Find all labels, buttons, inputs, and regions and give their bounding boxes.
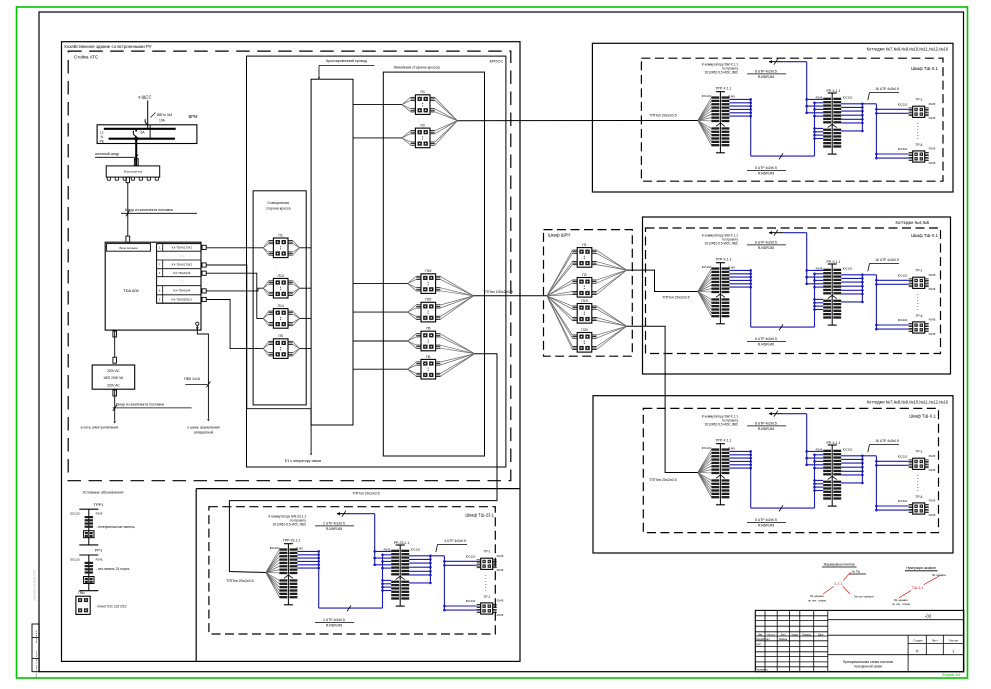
svg-text:8 UTP 4х2х0.5: 8 UTP 4х2х0.5 (755, 337, 777, 341)
svg-text:- пат-панель 24 порта,: - пат-панель 24 порта, (96, 567, 130, 571)
svg-text:№док: №док (792, 633, 799, 636)
svg-text:RJ45: RJ45 (929, 513, 936, 517)
svg-text:RJ45: RJ45 (929, 318, 936, 322)
wire: штатный шнур (thick cord from ВРМ) (135, 137, 137, 166)
svg-text:ВРМ: ВРМ (189, 114, 199, 119)
svg-text:RJ45: RJ45 (497, 599, 504, 603)
UPS wire from PBX (114, 330, 116, 358)
svg-text:RJ45: RJ45 (929, 147, 936, 151)
svg-text:8 UTP 4х2х0.5: 8 UTP 4х2х0.5 (755, 70, 777, 74)
svg-text:П19: П19 (425, 269, 431, 273)
svg-text:8 UTP 4х2х0.5: 8 UTP 4х2х0.5 (755, 166, 777, 170)
svg-text:- плинт IDC 110 2/10: - плинт IDC 110 2/10 (96, 604, 127, 608)
svg-text:ПВЗ 1х16: ПВЗ 1х16 (184, 377, 200, 381)
svg-text:Маркировка плинтов: Маркировка плинтов (824, 562, 855, 566)
svg-text:RJ45: RJ45 (929, 161, 936, 165)
cross-connect jumper bundle (tall box) (311, 79, 353, 425)
svg-text:Е1 к оператору связи: Е1 к оператору связи (285, 459, 321, 463)
svg-text:16 UTP 4х2х0.5: 16 UTP 4х2х0.5 (875, 87, 899, 91)
svg-text:IDC110: IDC110 (70, 512, 80, 516)
svg-text:: : :: : : : (180, 254, 185, 258)
svg-text:Станционная: Станционная (267, 201, 289, 205)
svg-text:2012452-5.5-ИОС.ЛВС: 2012452-5.5-ИОС.ЛВС (705, 423, 739, 427)
splice node: П5/П6 to ТШ-23.1 trunk (440, 334, 474, 354)
svg-text:штатный шнур: штатный шнур (95, 152, 119, 156)
wire jumper bundle to П6 (353, 368, 408, 370)
svg-text:IDC110: IDC110 (843, 267, 853, 271)
svg-text:RJ45: RJ45 (929, 273, 936, 277)
wire П13 to jumper bundle (300, 287, 312, 289)
svg-text:RJ45: RJ45 (816, 267, 823, 271)
svg-text:ТШ-4-1: ТШ-4-1 (912, 586, 923, 590)
title block (основная надпись) (755, 610, 964, 671)
svg-text:№ пат-панели: № пат-панели (854, 595, 874, 599)
PBX chassis ground symbol (196, 322, 199, 325)
power supply module: Блок питания (107, 244, 151, 252)
earthing conductor ПВЗ 1х16 (197, 330, 208, 419)
station side box: Станционная сторона кросса (253, 191, 306, 405)
svg-text:ТРР-Х.1.1: ТРР-Х.1.1 (715, 438, 731, 442)
svg-text:П2: П2 (421, 124, 425, 128)
trunk wire ТППэп 100х2х0.5 to ШРН (474, 295, 547, 297)
svg-text:-02: -02 (925, 613, 932, 618)
cabinet interior box C (ТШ-Х.1 bottom) (698, 411, 929, 514)
svg-text:RJ45: RJ45 (929, 287, 936, 291)
cottage cabinet Шкаф ТШ-23.1 (dashed box) (209, 507, 495, 634)
svg-text:RJ45: RJ45 (929, 468, 936, 472)
svg-text:: : :: : : : (180, 280, 185, 284)
svg-text:RJ45: RJ45 (929, 102, 936, 106)
neutral tap wire (149, 125, 151, 139)
wire ШРН to box B (627, 270, 698, 291)
fan wires of line-side П5 (408, 334, 417, 341)
wire: card 6 to П13 (206, 288, 263, 291)
svg-text:П20: П20 (425, 298, 431, 302)
svg-text:IDC110: IDC110 (270, 546, 280, 550)
svg-text:Шкаф ТШ-Х.1: Шкаф ТШ-Х.1 (911, 66, 938, 71)
svg-text:РР-Х.1.1: РР-Х.1.1 (826, 260, 840, 264)
svg-text:КРОСС: КРОСС (489, 58, 503, 63)
wire jumper bundle to П5 (353, 340, 408, 342)
svg-text:ТРР-23.1.1: ТРР-23.1.1 (283, 538, 301, 542)
svg-text:Коттеджи №7,№8,№9,№10,№11,№12,: Коттеджи №7,№8,№9,№10,№11,№12,№16 (867, 400, 949, 405)
svg-text:РР-23.1.1: РР-23.1.1 (394, 541, 410, 545)
svg-text:IDC110: IDC110 (898, 274, 908, 278)
bus bar L1 (104, 128, 176, 130)
svg-text:ТР-6: ТР-6 (916, 314, 923, 318)
svg-text:Стойка АТС: Стойка АТС (74, 55, 98, 60)
svg-text:RJ45/RJ45: RJ45/RJ45 (758, 75, 774, 79)
fan wires of П1 (263, 241, 268, 248)
svg-text:ВВГнг 3х4: ВВГнг 3х4 (157, 113, 172, 117)
svg-text:Хозяйственное здание со встрое: Хозяйственное здание со встроенными РУ (64, 44, 152, 49)
PBX main unit KX-TDA600 (105, 242, 201, 330)
svg-text:RJ45/RJ45: RJ45/RJ45 (758, 524, 774, 528)
svg-text:П1: П1 (582, 243, 586, 247)
breaker 6А (135, 129, 137, 132)
svg-text:ТР-1: ТР-1 (916, 268, 923, 272)
svg-text:RJ45: RJ45 (96, 512, 103, 516)
svg-text:Разработал: Разработал (756, 638, 770, 641)
svg-text:сторона кросса: сторона кросса (266, 206, 291, 210)
svg-text:- телефонная пат-панель,: - телефонная пат-панель, (96, 525, 136, 529)
svg-text:ТР-1: ТР-1 (916, 97, 923, 101)
svg-text:Условные обозначения: Условные обозначения (82, 491, 123, 495)
svg-text:RJ45: RJ45 (497, 613, 504, 617)
cabinet Шкаф ТШ-Х.1 (box A, dashed) (641, 58, 943, 181)
svg-text:Инв.№ подл.: Инв.№ подл. (35, 664, 38, 677)
svg-text:№ шкафа: № шкафа (932, 573, 946, 577)
svg-text:2012452-5.5-ИОС.ЛВС: 2012452-5.5-ИОС.ЛВС (705, 242, 739, 246)
svg-text:П: П (916, 648, 919, 653)
fan wires of line-side П1 (402, 97, 411, 104)
socket outlets comb (106, 177, 108, 180)
cabinet interior box A (ТШ-Х.1 top) (698, 59, 929, 162)
svg-text:в сеть электропитания: в сеть электропитания (81, 426, 119, 430)
svg-text:IDC110: IDC110 (898, 318, 908, 322)
cottage building B outline (Коттеджи №4,№5) (643, 217, 951, 374)
svg-text:RJ45: RJ45 (497, 554, 504, 558)
svg-text:2012452-5.5-ИОС.ЛВС: 2012452-5.5-ИОС.ЛВС (273, 523, 307, 527)
bus bar N (109, 138, 175, 140)
svg-text:KX-TDA0144: KX-TDA0144 (173, 289, 190, 293)
svg-text:RJ45/RJ45: RJ45/RJ45 (758, 427, 774, 431)
svg-text:Подп. и дата: Подп. и дата (36, 650, 38, 664)
cabinet Шкаф ШРН (dashed) (544, 230, 633, 357)
svg-text:KX-TDA0144: KX-TDA0144 (173, 271, 190, 275)
svg-text:RJ45: RJ45 (728, 94, 735, 98)
wire: card to П14 (206, 273, 263, 318)
svg-text:Шкаф ТШ-Х.1: Шкаф ТШ-Х.1 (909, 414, 936, 419)
socket block: Блок розеток (106, 166, 160, 177)
svg-text:ТРР-Х.1.1: ТРР-Х.1.1 (715, 86, 731, 90)
svg-text:П19: П19 (581, 299, 587, 303)
svg-text:Кол.уч: Кол.уч (768, 634, 776, 636)
svg-text:П20: П20 (581, 328, 587, 332)
wire: card to П5 (206, 300, 263, 349)
building: Хозяйственное здание со встроенными РУ (solid outline) (62, 42, 521, 662)
svg-text:. . .: . . . (275, 268, 279, 273)
wire П14 to jumper bundle (300, 317, 312, 319)
svg-text:RJ45: RJ45 (728, 446, 735, 450)
PBX card shelf (157, 244, 201, 304)
wire jumper bundle to П1 (353, 104, 402, 106)
svg-text:RJ45: RJ45 (929, 454, 936, 458)
svg-text:RJ45: RJ45 (728, 265, 735, 269)
svg-text:KX-TDA0170XJ: KX-TDA0170XJ (172, 263, 193, 267)
svg-text:П13: П13 (278, 274, 284, 278)
svg-text:Коттеджи №7,№8,№9,№10,№11,№12,: Коттеджи №7,№8,№9,№10,№11,№12,№16 (867, 47, 949, 52)
svg-text:IDC110: IDC110 (466, 555, 476, 559)
svg-text:16 UTP 4х2х0.5: 16 UTP 4х2х0.5 (875, 258, 899, 262)
svg-text:4-Т-1: 4-Т-1 (834, 582, 842, 586)
UPS unit ИБП 2000 VA (92, 365, 135, 389)
svg-text:220V AC: 220V AC (107, 369, 120, 373)
svg-text:П6: П6 (426, 355, 430, 359)
ШРН fan of П2 (547, 280, 573, 296)
svg-text:Дата: Дата (818, 634, 824, 636)
svg-text:Шкаф ТШ-Х.1: Шкаф ТШ-Х.1 (911, 233, 938, 238)
fan wires of line-side П20 (408, 305, 417, 312)
PBX power inlet connector (126, 236, 130, 242)
svg-text:П14: П14 (278, 304, 284, 308)
ШРН splice П1/П2 (597, 250, 627, 270)
svg-text:IDC110: IDC110 (898, 499, 908, 503)
svg-text:Лист: Лист (932, 639, 939, 643)
svg-text:KX-TDA0170XJ: KX-TDA0170XJ (172, 246, 193, 250)
svg-text:IDC110: IDC110 (702, 446, 712, 450)
svg-text:RJ45: RJ45 (384, 548, 391, 552)
svg-text:Блок розеток: Блок розеток (124, 170, 143, 174)
wire П1 to jumper bundle (300, 247, 312, 249)
line side box: Линейная сторона кросса (383, 72, 484, 456)
svg-text:ИБП 2000 VA: ИБП 2000 VA (104, 376, 124, 380)
cottage building C outline (Коттеджи №7..№16 lower) (593, 396, 953, 553)
svg-text:RJ45: RJ45 (296, 546, 303, 550)
svg-text:Взам. инв.№: Взам. инв.№ (35, 629, 38, 643)
svg-text:RJ45: RJ45 (816, 448, 823, 452)
svg-text:Принципиальная схема системы: Принципиальная схема системы (843, 660, 894, 664)
fan wires of line-side П6 (408, 362, 417, 369)
svg-text:IDC110: IDC110 (411, 548, 421, 552)
wire: шнур из комплекта поставки (to PBX) (127, 183, 129, 236)
trunk wire to Шкаф ТШ-23.1 (229, 354, 497, 573)
ШРН fan of П1 (547, 250, 573, 296)
svg-text:2 UTP 4х2х0.5: 2 UTP 4х2х0.5 (323, 522, 345, 526)
svg-text:П1: П1 (421, 90, 425, 94)
wire: card 1 to П1 (206, 247, 263, 249)
splice node: П19/П20 to ШРН trunk (440, 276, 473, 295)
wire jumper bundle to П20 (353, 311, 408, 313)
svg-text:ТРР1: ТРР1 (94, 502, 104, 507)
svg-text:Подпись: Подпись (802, 634, 812, 636)
svg-text:Нумерация шкафов: Нумерация шкафов (906, 566, 936, 570)
svg-text:Шнур из комплекта поставки: Шнур из комплекта поставки (125, 208, 173, 212)
svg-text:по ген. плану: по ген. плану (808, 598, 827, 602)
svg-text:RJ45: RJ45 (816, 96, 823, 100)
svg-text:IDC110: IDC110 (843, 96, 853, 100)
svg-text:IDC110: IDC110 (466, 599, 476, 603)
svg-text:2012452-5.5-ИОС.ЛВС: 2012452-5.5-ИОС.ЛВС (705, 71, 739, 75)
plug of PBX supply cord (126, 177, 129, 183)
trunk wire to cottages box A (457, 120, 697, 122)
svg-text:IDC110: IDC110 (70, 557, 80, 561)
svg-text:ТППэп 20х2х0.5: ТППэп 20х2х0.5 (662, 295, 689, 299)
cabinet rack: Стойка АТС (dashed) (68, 51, 511, 481)
svg-text:ТР-2: ТР-2 (484, 595, 491, 599)
svg-text:ТППэп 20х2х0.5: ТППэп 20х2х0.5 (226, 579, 253, 583)
svg-text:RJ45: RJ45 (497, 568, 504, 572)
svg-text:ТР-6: ТР-6 (916, 495, 923, 499)
svg-text:KX-TDA0290CJ: KX-TDA0290CJ (172, 297, 193, 301)
svg-text:TDA 600: TDA 600 (123, 288, 139, 293)
svg-text:Блок питания: Блок питания (119, 246, 138, 250)
fan wires of П14 (263, 311, 268, 318)
svg-text:ТРР-Х.1.1: ТРР-Х.1.1 (715, 257, 731, 261)
svg-text:РР-Х.1.1: РР-Х.1.1 (826, 89, 840, 93)
svg-text:ТР-1: ТР-1 (916, 449, 923, 453)
svg-text:ТР-6: ТР-6 (916, 143, 923, 147)
svg-text:П5: П5 (279, 334, 283, 338)
svg-text:RJ45: RJ45 (929, 116, 936, 120)
svg-text:Листов: Листов (949, 639, 958, 643)
frame attribute table (bottom-left) (32, 624, 39, 672)
svg-text:ТППэп 20х2х0.5: ТППэп 20х2х0.5 (352, 491, 379, 495)
cottage building 23 outline (solid, bottom) (195, 489, 197, 662)
wire: feeder drop from ЩСС (147, 101, 149, 129)
svg-text:16 UTP 4х2х0.5: 16 UTP 4х2х0.5 (875, 439, 899, 443)
plug connector into socket block (134, 159, 138, 166)
splice node: П1/П2 to cottages A trunk (435, 97, 458, 120)
svg-text:4 UTP 4х2х0.5: 4 UTP 4х2х0.5 (444, 539, 466, 543)
svg-text:2012452-5.5-ИОС.СТС: 2012452-5.5-ИОС.СТС (33, 568, 37, 600)
svg-text:ГИП: ГИП (756, 643, 761, 646)
svg-text:RJ45: RJ45 (96, 557, 103, 561)
svg-text:. . .: . . . (418, 119, 422, 124)
wire: E1 card trunk (206, 265, 311, 409)
svg-text:RJ45/RJ45: RJ45/RJ45 (326, 527, 342, 531)
svg-text:ТР-1: ТР-1 (484, 549, 491, 553)
svg-text:Коттеджи №4,№5: Коттеджи №4,№5 (896, 220, 930, 225)
svg-text:Шкаф ТШ-23.1: Шкаф ТШ-23.1 (465, 512, 494, 517)
svg-text:аппаратной: аппаратной (194, 431, 213, 435)
svg-text:РР1: РР1 (95, 548, 102, 553)
cabinet Шкаф ТШ-Х.1 (box B, dashed) (646, 228, 941, 354)
cabinet interior ТШ-23.1 (266, 511, 497, 614)
svg-text:IDC110: IDC110 (898, 147, 908, 151)
cabinet interior box B (ТШ-Х.1 middle) (698, 230, 929, 333)
cross-connect field КРОСС (outer box) (247, 56, 506, 467)
svg-text:к ЩСС: к ЩСС (139, 95, 152, 100)
svg-text:IDC110: IDC110 (843, 448, 853, 452)
svg-text:телефонной связи: телефонной связи (854, 665, 882, 669)
svg-text:L1: L1 (100, 130, 104, 134)
svg-text:Шкаф ШРН: Шкаф ШРН (548, 233, 570, 238)
svg-text:RJ45: RJ45 (929, 499, 936, 503)
svg-text:8 UTP 4х2х0.5: 8 UTP 4х2х0.5 (755, 241, 777, 245)
svg-text:Шнур из комплекта поставки: Шнур из комплекта поставки (116, 403, 164, 407)
wire П5 to jumper bundle (300, 348, 312, 350)
svg-text:по ген. плану: по ген. плану (892, 602, 911, 606)
svg-text:Хамков: Хамков (779, 638, 788, 641)
svg-text:Стадия: Стадия (913, 639, 923, 643)
fan wires of line-side П2 (402, 131, 411, 138)
wire jumper bundle to П19 (353, 283, 408, 285)
svg-text:№ ТШ: № ТШ (852, 570, 861, 574)
ШРН splice П19/П20 (597, 306, 627, 326)
breaker 10А on feeder (145, 119, 148, 124)
svg-text:RJ45: RJ45 (929, 332, 936, 336)
junction on N bar (134, 137, 138, 141)
svg-text:Формат А3: Формат А3 (942, 673, 960, 677)
wire jumper bundle to П2 (353, 137, 402, 139)
svg-text:220V AC: 220V AC (107, 384, 120, 388)
cottage building A outline (Коттеджи №7..№16) (592, 43, 953, 192)
svg-text:8 UTP 4х2х0.5: 8 UTP 4х2х0.5 (755, 518, 777, 522)
wire to mains (113, 390, 117, 396)
svg-text:П5: П5 (426, 327, 430, 331)
svg-text:IDC110: IDC110 (898, 455, 908, 459)
ШРН fan of П19 (547, 296, 573, 306)
svg-text:П1: П1 (279, 233, 283, 237)
svg-text:П2: П2 (582, 273, 586, 277)
wire ШРН to box C (627, 326, 698, 472)
svg-text:Линейная сторона кросса: Линейная сторона кросса (393, 65, 440, 70)
svg-text:2 UTP 4х2х0.5: 2 UTP 4х2х0.5 (323, 618, 345, 622)
svg-text:Кроссировочный провод: Кроссировочный провод (326, 59, 368, 63)
wire: E1 to operator (310, 409, 312, 453)
svg-text:8 UTP 4х2х0.5: 8 UTP 4х2х0.5 (755, 422, 777, 426)
cabinet Шкаф ТШ-Х.1 (box C, dashed) (643, 408, 938, 532)
svg-text:ТППэп 20х2х0.5: ТППэп 20х2х0.5 (649, 478, 676, 482)
svg-text:Проверил: Проверил (756, 669, 768, 672)
svg-text:10А: 10А (159, 119, 166, 123)
svg-text:RJ45/RJ45: RJ45/RJ45 (758, 172, 774, 176)
svg-text:IDC110: IDC110 (702, 94, 712, 98)
fan wires of line-side П19 (408, 276, 417, 283)
svg-text:ТППэп 20х2х0.5: ТППэп 20х2х0.5 (649, 114, 676, 118)
ШРН fan of П20 (547, 296, 573, 335)
svg-text:RJ45/RJ45: RJ45/RJ45 (326, 624, 342, 628)
svg-text:RJ45/RJ45: RJ45/RJ45 (758, 246, 774, 250)
svg-text:РР-Х.1.1: РР-Х.1.1 (826, 441, 840, 445)
svg-text:RJ45/RJ45: RJ45/RJ45 (758, 343, 774, 347)
svg-text:Изм: Изм (758, 634, 763, 636)
svg-text:ТППэп 100х2х0.5: ТППэп 100х2х0.5 (483, 290, 512, 294)
fan wires of П13 (263, 281, 268, 288)
fan wires of П5 (263, 341, 268, 348)
svg-text:IDC110: IDC110 (898, 103, 908, 107)
svg-text:к шине заземления: к шине заземления (187, 426, 219, 430)
svg-text:ПNх: ПNх (78, 591, 85, 595)
svg-text:IDC110: IDC110 (702, 265, 712, 269)
